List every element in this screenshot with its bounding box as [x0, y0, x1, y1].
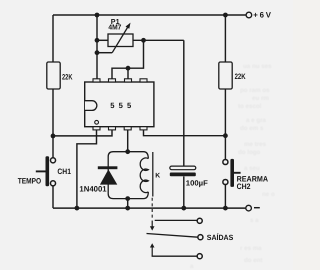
svg-text:CH1: CH1: [57, 167, 71, 176]
diode D1 cathode bar: [98, 166, 118, 169]
node R1 / CH1 / pin2: [51, 134, 56, 139]
pin 1: [93, 127, 100, 130]
bleed-through print (faint, back of page): [190, 63, 275, 270]
node top rail / pin8 feed: [95, 13, 100, 18]
wire pin3 to relay node: [127, 130, 129, 152]
svg-text:100µF: 100µF: [186, 178, 208, 187]
pin 5: [140, 79, 147, 82]
wire pins 6-7 tie to pot node: [112, 40, 144, 79]
wire P1 wiper tie: [97, 52, 112, 54]
diode D1 / relay loop frame: [108, 152, 148, 199]
svg-text:eu rm: eu rm: [252, 95, 269, 102]
potentiometer P1 wiper arrow: [112, 26, 128, 53]
svg-text:ua nu ses: ua nu ses: [243, 63, 272, 70]
wire pin4 to R2/CH2 node: [144, 130, 226, 136]
wire C1 top lead (pot corner down to cap): [183, 40, 185, 166]
node P1 wiper tie: [95, 50, 100, 55]
pin 7: [109, 79, 116, 82]
wire relay loop to ground stub: [127, 199, 129, 209]
svg-text:CH2: CH2: [237, 182, 251, 191]
capacitor C1 bottom plate: [170, 173, 196, 177]
IC pin1 mark: [95, 120, 99, 124]
wire R1 to node pin2 junction: [52, 89, 54, 158]
wire P1 left lead: [97, 39, 108, 41]
relay coil K: [140, 158, 148, 193]
terminal minus: [246, 205, 252, 211]
wire top supply rail: [53, 14, 246, 16]
terminal +6V: [246, 12, 252, 18]
svg-text:TEMPO: TEMPO: [18, 176, 42, 185]
svg-text:do ent: do ent: [244, 257, 263, 264]
svg-text:1N4001: 1N4001: [79, 185, 107, 194]
node top rail / R2 feed: [223, 13, 228, 18]
wire pin2 to R1/CH1 node: [53, 130, 112, 136]
svg-text:22K: 22K: [235, 72, 246, 81]
contact fixed top: [155, 219, 197, 221]
wire CH1 bottom to bottom rail: [52, 186, 54, 208]
node pin6 tie: [126, 66, 131, 71]
wire R2 bottom to node: [224, 89, 226, 160]
svg-text:555: 555: [110, 101, 135, 110]
svg-text:K: K: [155, 173, 160, 180]
switch CH2 stem: [234, 172, 241, 174]
node P1 right lead / pins 6-7: [141, 38, 146, 43]
IC top pins: [93, 79, 147, 130]
switch CH2 terminals: [223, 159, 228, 164]
node relay loop top: [125, 149, 130, 154]
potentiometer P1 body: [108, 34, 133, 47]
contact arrow up: [150, 243, 155, 247]
resistor R2 22K: [219, 62, 232, 89]
relay actuation dashed link: [151, 198, 153, 221]
node relay loop bottom: [125, 196, 130, 201]
svg-text:r es ma: r es ma: [240, 245, 262, 252]
node ground / relay: [125, 206, 130, 211]
node ground / C1: [181, 206, 186, 211]
IC notch: [85, 101, 97, 111]
svg-text:a e gra: a e gra: [246, 117, 267, 124]
node ground / pin1: [75, 206, 80, 211]
pin 4: [140, 127, 147, 130]
wire P1 right lead to corner: [133, 39, 184, 41]
node ground / CH2: [223, 206, 228, 211]
switch CH1 stem: [36, 170, 46, 172]
wire pin1 to ground: [77, 130, 97, 208]
svg-text:4M7: 4M7: [108, 23, 121, 32]
node P1 left lead: [95, 38, 100, 43]
svg-text:me tres: me tres: [244, 141, 267, 148]
label minus: [254, 207, 260, 209]
IC U1 555 body: [85, 82, 154, 127]
wire pin8 feed from top rail: [96, 15, 98, 79]
relay link arrow down: [151, 221, 153, 227]
pin 6: [125, 79, 132, 82]
relay core bar: [152, 152, 154, 197]
svg-text:do em s: do em s: [240, 125, 264, 132]
wire C1 bottom lead: [183, 176, 185, 208]
contact lever (common): [147, 234, 198, 238]
resistor R1 22K: [47, 62, 60, 89]
wire bottom ground rail: [53, 207, 246, 209]
diode D1 triangle: [100, 169, 117, 184]
node R2 / CH2 / pin4: [223, 133, 228, 138]
contact fixed bottom: [152, 255, 198, 257]
switch CH1 actuator bar: [46, 156, 50, 186]
svg-text:do logo: do logo: [238, 149, 261, 156]
wire pin6 drop: [127, 68, 129, 79]
wire R2 top feed: [224, 15, 226, 63]
svg-text:po ram os: po ram os: [240, 87, 270, 94]
svg-text:22K: 22K: [62, 72, 73, 81]
svg-text:SAÍDAS: SAÍDAS: [207, 233, 234, 242]
svg-text:a seu: a seu: [244, 165, 260, 172]
pin 8: [93, 79, 100, 82]
switch CH2 actuator bar: [230, 159, 234, 187]
svg-text:a: a: [190, 263, 194, 270]
svg-text:+6V: +6V: [253, 11, 272, 20]
svg-text:ne o: ne o: [262, 191, 275, 198]
svg-text:to escol: to escol: [238, 103, 262, 110]
switch CH1 terminals: [50, 158, 55, 163]
wire CH2 bottom to ground rail: [224, 185, 226, 209]
pin 3: [124, 127, 131, 130]
wire left rail upper (to R1): [52, 15, 54, 63]
capacitor C1 top plate: [170, 166, 196, 170]
svg-text:s a: s a: [250, 217, 259, 224]
pin 2: [109, 127, 116, 130]
